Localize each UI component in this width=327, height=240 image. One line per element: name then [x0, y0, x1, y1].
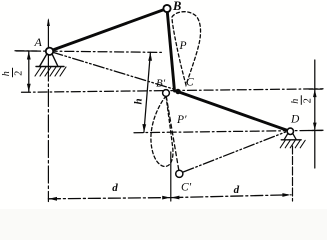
svg-text:C: C [186, 77, 194, 89]
svg-text:P′: P′ [176, 114, 187, 126]
svg-text:C′: C′ [181, 182, 192, 194]
svg-text:P: P [179, 40, 187, 52]
svg-text:D: D [290, 113, 300, 125]
svg-text:h: h [290, 99, 301, 104]
svg-text:d: d [112, 182, 118, 194]
svg-text:h: h [133, 98, 145, 104]
svg-text:2: 2 [14, 71, 25, 76]
svg-text:2: 2 [302, 98, 313, 103]
svg-text:B: B [172, 0, 181, 13]
svg-text:d: d [234, 184, 240, 196]
svg-text:h: h [1, 71, 12, 76]
svg-text:B′: B′ [156, 77, 166, 89]
svg-text:A: A [34, 35, 43, 49]
